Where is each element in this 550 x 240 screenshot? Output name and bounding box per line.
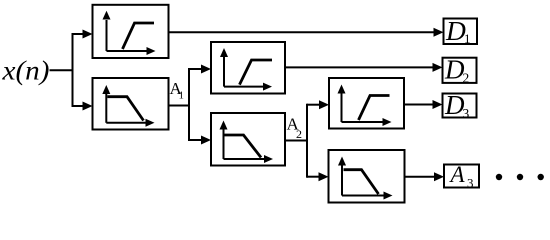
wire L3 output to A3 (with arrowhead)	[405, 172, 445, 181]
highpass filter box H1	[93, 5, 169, 58]
svg-text:A: A	[449, 162, 466, 187]
box D1	[444, 15, 478, 46]
box D2	[443, 55, 477, 86]
lowpass filter box L3	[329, 150, 405, 203]
svg-text:2: 2	[463, 71, 470, 86]
wire H3 output to D3 (with arrowhead)	[404, 100, 443, 109]
svg-text:3: 3	[467, 176, 474, 191]
wire arm into lowpass filter 3 (with arrowhead)	[307, 172, 329, 181]
svg-text:1: 1	[464, 31, 471, 46]
svg-text:2: 2	[296, 127, 302, 141]
ellipsis dot 1	[496, 174, 502, 180]
lowpass filter box L1	[93, 78, 169, 130]
wire H1 output to D1 (with arrowhead)	[169, 28, 444, 37]
wire L1 output to junction A1	[169, 105, 191, 107]
wire top arm into highpass filter 1 (with arrowhead)	[73, 30, 93, 39]
ellipsis dot 3	[538, 174, 544, 180]
box A3	[444, 162, 479, 191]
svg-text:x(n): x(n)	[1, 56, 49, 86]
node A1 label	[170, 79, 185, 102]
svg-text:3: 3	[463, 106, 470, 121]
wire junction A1 vertical splitter	[188, 68, 190, 141]
wire L2 output to junction A2	[285, 140, 308, 142]
wire bottom arm into lowpass filter 1 (with arrowhead)	[73, 102, 93, 111]
wire H2 output to D2 (with arrowhead)	[285, 63, 443, 72]
box D3	[443, 90, 477, 121]
wire arm into lowpass filter 2 (with arrowhead)	[189, 136, 211, 145]
ellipsis dot 2	[517, 174, 523, 180]
wire from x(n) to input junction	[50, 69, 74, 71]
lowpass filter box L2	[211, 113, 285, 166]
highpass filter box H3	[329, 78, 404, 129]
svg-text:1: 1	[179, 90, 185, 102]
wire arm into highpass filter 3 (with arrowhead)	[307, 100, 329, 109]
highpass filter box H2	[211, 42, 285, 94]
wire junction A2 vertical splitter	[306, 104, 308, 178]
node A2 label	[287, 115, 303, 142]
svg-text:D: D	[445, 15, 466, 46]
wire input junction vertical splitter	[72, 33, 74, 107]
wire arm into highpass filter 2 (with arrowhead)	[189, 65, 211, 74]
